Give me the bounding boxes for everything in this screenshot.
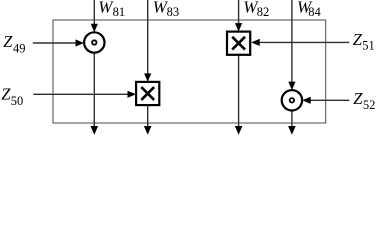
svg-text:83: 83	[167, 5, 180, 19]
svg-text:81: 81	[113, 5, 126, 19]
svg-text:84: 84	[308, 5, 321, 19]
svg-text:50: 50	[11, 94, 23, 108]
svg-text:Z: Z	[1, 85, 11, 104]
svg-text:82: 82	[257, 5, 270, 19]
svg-text:Z: Z	[353, 30, 363, 49]
svg-text:Z: Z	[3, 32, 13, 51]
svg-text:49: 49	[13, 41, 26, 55]
svg-text:Z: Z	[353, 89, 363, 108]
svg-text:52: 52	[363, 98, 376, 112]
svg-text:51: 51	[362, 39, 375, 53]
